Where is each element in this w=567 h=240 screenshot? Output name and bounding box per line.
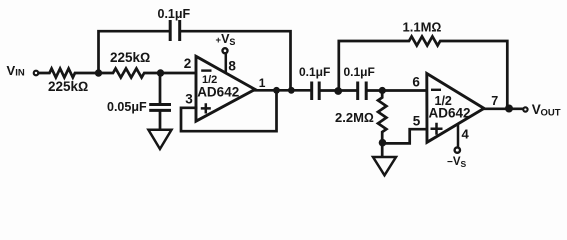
svg-text:7: 7: [491, 94, 498, 108]
svg-text:225kΩ: 225kΩ: [48, 79, 88, 94]
svg-text:V: V: [7, 63, 16, 78]
svg-text:0.05μF: 0.05μF: [107, 100, 147, 114]
svg-text:1.1MΩ: 1.1MΩ: [403, 20, 442, 35]
svg-text:225kΩ: 225kΩ: [110, 50, 150, 65]
svg-text:4: 4: [462, 126, 470, 141]
svg-text:5: 5: [413, 114, 421, 129]
svg-text:8: 8: [228, 58, 236, 73]
svg-text:0.1μF: 0.1μF: [158, 7, 191, 21]
svg-text:OUT: OUT: [541, 108, 561, 119]
svg-text:0.1μF: 0.1μF: [299, 65, 330, 79]
svg-text:AD642: AD642: [197, 85, 239, 100]
svg-text:IN: IN: [15, 68, 25, 79]
svg-text:6: 6: [412, 75, 420, 90]
svg-text:3: 3: [185, 92, 193, 107]
svg-text:2: 2: [184, 56, 192, 71]
svg-text:AD642: AD642: [429, 105, 471, 120]
svg-text:V: V: [532, 102, 541, 117]
svg-text:0.1μF: 0.1μF: [344, 65, 375, 79]
svg-text:1: 1: [259, 76, 266, 90]
svg-text:2.2MΩ: 2.2MΩ: [335, 110, 374, 125]
